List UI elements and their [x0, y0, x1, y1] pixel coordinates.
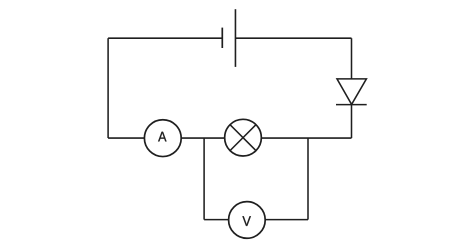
wire right vertical upper — [351, 38, 353, 79]
wire ammeter to lamp — [181, 137, 225, 139]
wire bottom left segment — [108, 137, 144, 139]
wire left vertical — [107, 38, 109, 138]
wire voltmeter branch left horizontal — [204, 219, 229, 221]
wire voltmeter branch right horizontal — [265, 219, 308, 221]
diode D1 cathode bar — [336, 104, 367, 106]
lamp L1 circle — [225, 119, 262, 156]
wire right vertical lower — [351, 105, 353, 138]
wire voltmeter branch left vertical — [203, 138, 205, 220]
ammeter A1 circle — [144, 120, 181, 157]
voltmeter V1 label V — [242, 216, 250, 226]
ammeter A1 label A — [158, 132, 166, 142]
lamp L1 cross — [230, 125, 256, 151]
wire voltmeter branch right vertical — [307, 138, 309, 220]
wire top-left horizontal — [108, 37, 222, 39]
battery cell B1 negative plate — [221, 28, 223, 48]
wire lamp to right — [261, 137, 351, 139]
wire top-right horizontal — [235, 37, 351, 39]
diode D1 triangle — [337, 79, 366, 105]
battery cell B1 positive plate — [234, 9, 236, 67]
voltmeter V1 circle — [229, 202, 266, 239]
